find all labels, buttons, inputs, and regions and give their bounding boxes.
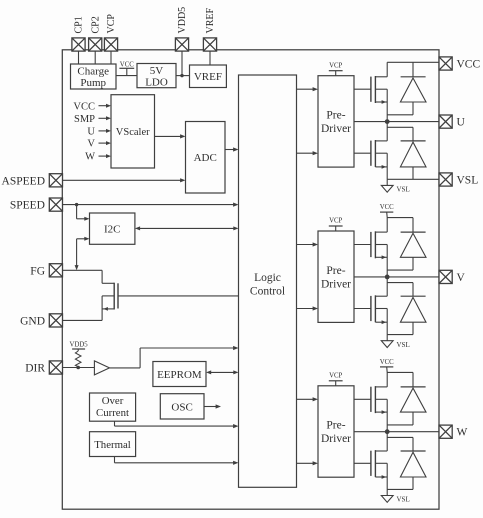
svg-text:CP2: CP2 [90,16,101,33]
wire SPEED branch to I2C [76,205,78,219]
buffer U2 (DIR input buffer) [94,361,109,375]
thermal block [90,432,136,457]
wire Thermal to Logic Control [114,457,116,463]
svg-text:VCP: VCP [329,62,342,69]
wire pre-driver to high-side gate (U) [354,88,371,90]
EEPROM block [153,362,206,387]
svg-text:U: U [457,117,466,129]
svg-text:VCC: VCC [73,101,95,112]
wire output node U [354,121,439,123]
svg-text:VSL: VSL [397,341,410,349]
diode low-side body diode (V) [387,282,413,284]
pre-driver V [318,231,354,322]
svg-text:U: U [87,127,95,138]
OSC block [160,394,204,419]
5V LDO block [137,64,176,88]
svg-text:EEPROM: EEPROM [157,369,202,381]
wire EEPROM to Logic Control (bidirectional) [210,371,235,373]
power symbol VCC (top) [126,68,128,75]
wire low-side source junction (V) [387,334,413,336]
wire Over Current to Logic Control [114,421,116,426]
svg-text:VCP: VCP [329,218,342,225]
svg-text:SPEED: SPEED [10,200,45,212]
wire Logic Control to pre-driver U (low) [297,152,315,154]
svg-text:V: V [87,139,95,150]
wire Logic Control to pre-driver V (high) [297,244,315,246]
charge pump block [71,64,117,89]
svg-text:Pre-: Pre- [326,420,345,432]
svg-text:VCC: VCC [380,204,394,211]
wire VScaler to ADC [155,135,182,137]
svg-text:GND: GND [20,315,45,327]
pin DIR [49,361,62,374]
svg-text:VSL: VSL [397,496,410,504]
node SPEED branch [75,203,78,206]
wire Q1 gate to Logic Control [118,295,239,297]
pin GND [49,314,62,327]
wire FG down to transistor drain [101,270,103,283]
pin V [439,270,452,283]
pin VSL [439,173,452,186]
diode high-side body diode (U) [412,62,414,77]
wire FG [62,269,102,271]
wire CP1 to Charge Pump [78,51,80,64]
ground symbol VSL (phase V) [386,335,388,341]
svg-text:VCC: VCC [457,59,481,71]
transistor high-side FET (V) [370,232,372,257]
svg-text:ASPEED: ASPEED [2,175,45,187]
svg-text:Pump: Pump [80,77,106,89]
pin ASPEED [49,174,62,187]
svg-text:Thermal: Thermal [94,439,131,451]
pin CP2 [89,38,102,51]
wire GND [62,319,102,321]
wire VCC rail to VCC pin [387,61,439,63]
wire low-side source junction (W) [387,488,413,490]
transistor low-side FET (V) [370,296,372,321]
svg-text:Pre-: Pre- [326,265,345,277]
svg-text:VCC: VCC [380,359,394,366]
diode low-side body diode (U) [387,126,413,128]
transistor high-side FET (U) [370,77,372,102]
svg-text:DIR: DIR [25,363,45,375]
pre-driver U [318,76,354,167]
diode high-side body diode (V) [412,218,414,233]
svg-text:VCC: VCC [120,61,134,68]
svg-text:V: V [457,272,466,284]
ground symbol VSL (phase U) [386,179,388,185]
svg-text:SMP: SMP [74,114,95,125]
wire Logic Control to pre-driver U (high) [297,88,315,90]
svg-text:VScaler: VScaler [116,127,150,138]
pin CP1 [72,38,85,51]
svg-text:I2C: I2C [104,224,121,236]
wire DIR [62,367,94,369]
svg-text:FG: FG [30,265,45,277]
pin VREF [203,38,216,51]
svg-text:Driver: Driver [321,433,351,445]
resistor R1 (DIR pullup) [75,351,81,367]
wire VCP to Charge Pump [110,51,112,64]
I2C block [90,213,135,244]
transistor low-side FET (U) [370,141,372,166]
wire Q1 source to GND [101,296,103,321]
diode high-side body diode (W) [412,372,414,387]
svg-text:Pre-: Pre- [326,110,345,122]
VREF block [190,65,227,88]
VScaler block [111,95,155,168]
wire VREF pin to VREF block [209,51,211,65]
pre-driver W [318,386,354,477]
node W junction [385,429,390,434]
wire I2C to Logic Control (bidirectional) [139,227,235,229]
svg-text:Over: Over [102,395,124,407]
wire pre-driver to high-side gate (W) [354,398,371,400]
svg-text:Control: Control [250,286,285,298]
svg-text:5V: 5V [150,65,164,77]
wire 5V LDO to VREF block [176,75,190,77]
pin W [439,425,452,438]
svg-text:Logic: Logic [254,272,281,284]
wire ADC to Logic Control [225,149,235,151]
wire SPEED to Logic Control [62,204,234,206]
wire ASPEED to ADC [62,179,181,181]
svg-text:VSL: VSL [457,175,479,187]
transistor high-side FET (W) [370,387,372,412]
svg-text:W: W [457,427,468,439]
wire pre-driver to low-side gate (U) [354,152,371,154]
svg-text:Driver: Driver [321,278,351,290]
wire VDD5 pin down [181,51,183,76]
svg-text:VSL: VSL [397,186,410,194]
wire Logic Control to pre-driver W (low) [297,462,315,464]
ADC block [186,122,226,194]
wire I2C to FG node [77,238,86,240]
transistor low-side FET (W) [370,451,372,476]
wire pre-driver to low-side gate (W) [354,462,371,464]
pin VDD5 [175,38,188,51]
ground symbol VSL (phase W) [386,489,388,495]
svg-text:Charge: Charge [77,66,109,78]
pin U [439,115,452,128]
svg-text:W: W [85,152,95,163]
svg-text:VREF: VREF [205,8,216,34]
wire buffer to Logic Control [110,367,141,369]
wire Logic Control to pre-driver W (high) [297,398,315,400]
pin VCP [104,38,117,51]
svg-text:CP1: CP1 [74,16,85,33]
wire output node V [354,276,439,278]
svg-text:ADC: ADC [194,152,217,164]
pin VCC [439,57,452,70]
svg-text:VCP: VCP [329,373,342,380]
over current block [90,393,136,421]
diode low-side body diode (W) [387,436,413,438]
node U junction [385,119,390,124]
svg-text:Current: Current [96,407,129,419]
wire pre-driver to low-side gate (V) [354,308,371,310]
pin SPEED [49,198,62,211]
svg-text:VCP: VCP [106,14,117,34]
transistor Q1 (FG sense FET) [113,283,115,310]
wire pre-driver to high-side gate (V) [354,244,371,246]
wire CP2 to Charge Pump [94,51,96,64]
wire Charge Pump to 5V LDO [116,75,137,77]
svg-text:LDO: LDO [145,77,168,89]
wire OSC output arrow [204,406,217,408]
svg-text:VDD5: VDD5 [177,7,188,34]
node V junction [385,275,390,280]
wire output node W [354,431,439,433]
wire low-side source to VSL pin [387,178,439,180]
pin FG [49,264,62,277]
wire Logic Control to pre-driver V (low) [297,308,315,310]
logic control block [239,75,297,487]
svg-text:Driver: Driver [321,123,351,135]
svg-text:VDD5: VDD5 [70,341,89,348]
svg-text:OSC: OSC [171,401,192,413]
svg-text:VREF: VREF [194,71,222,83]
IC boundary box [62,50,439,509]
